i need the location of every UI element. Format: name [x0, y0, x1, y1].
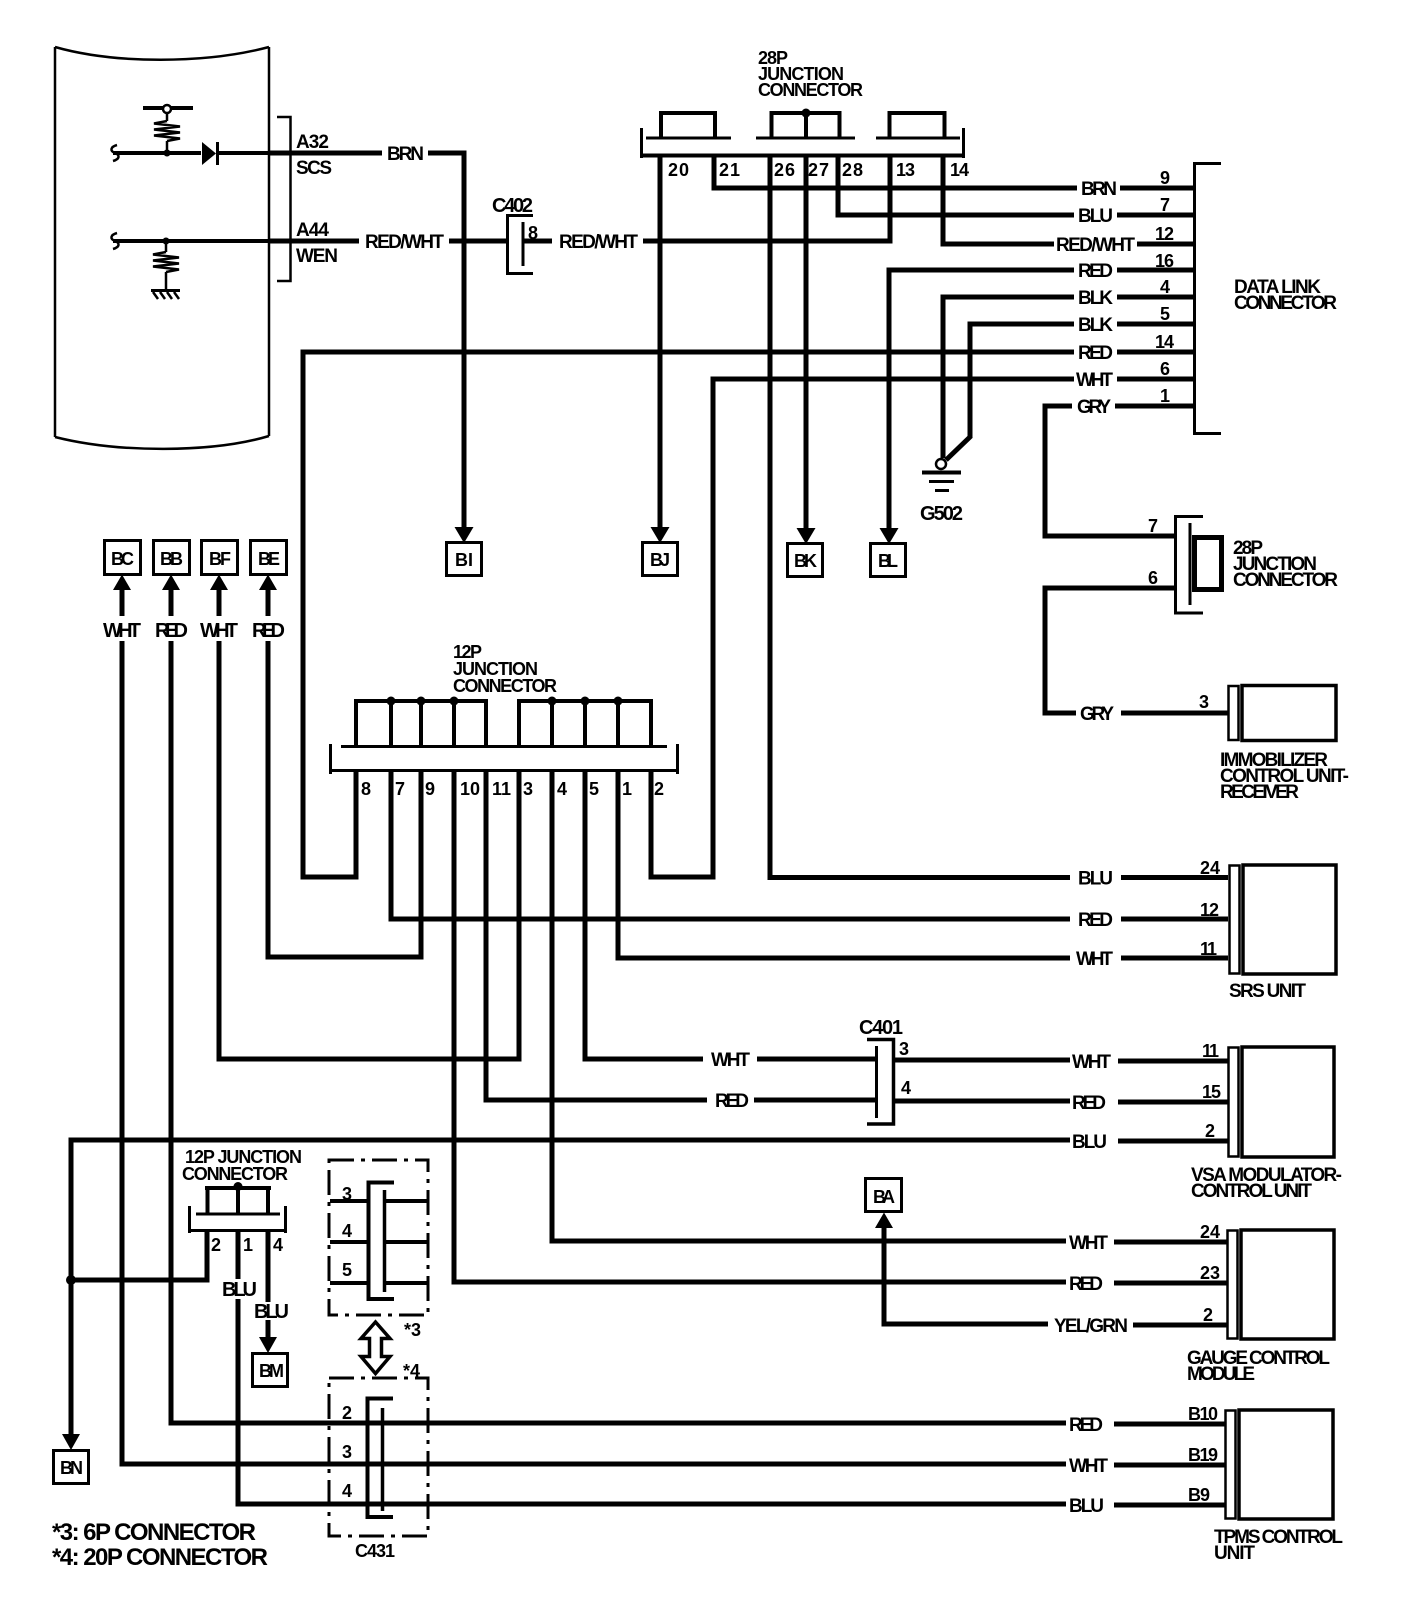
- wire BLU branch to lower 12P pin 2: [71, 1232, 210, 1283]
- 6P connector box *3 (dashed): [329, 1160, 428, 1315]
- svg-text:YEL/GRN: YEL/GRN: [1054, 1316, 1128, 1337]
- wire 12P pin 5 to WHT C401 pin 3: [583, 771, 879, 1062]
- *3 connector symbol: [369, 1183, 395, 1300]
- wire RED/WHT from C402 to 28P pin 13: [524, 157, 890, 244]
- connector box BK with arrow: [788, 528, 823, 577]
- svg-text:BLU: BLU: [1078, 869, 1113, 890]
- svg-text:3: 3: [342, 1184, 352, 1204]
- wire BLU 28P pin26 to SRS24: [768, 875, 1229, 880]
- svg-text:2: 2: [342, 1403, 352, 1423]
- wire BRN from A32 to BI corner: [269, 151, 467, 529]
- wire GRY from DLC pin 1 to 28P right pin 7: [1043, 406, 1195, 539]
- svg-text:13: 13: [896, 160, 915, 180]
- svg-text:BLK: BLK: [1078, 288, 1113, 309]
- 28P junction connector (right) symbol: [1176, 517, 1222, 614]
- svg-text:4: 4: [273, 1235, 283, 1255]
- svg-text:3: 3: [899, 1039, 909, 1059]
- wire BLU from BN node to VSA pin 2: [69, 1140, 1229, 1141]
- connector box BA with up arrow: [866, 1179, 902, 1327]
- 12P lower bump group with dot: [205, 1182, 271, 1214]
- wire 12P pin 7 to RED SRS12: [389, 771, 1229, 922]
- svg-text:2: 2: [1203, 1305, 1213, 1325]
- svg-text:BRN: BRN: [1081, 179, 1117, 200]
- svg-text:BLU: BLU: [1069, 1496, 1104, 1517]
- svg-text:SCS: SCS: [296, 158, 332, 179]
- svg-text:RECEIVER: RECEIVER: [1220, 782, 1299, 803]
- label TPMS CONTROL UNIT: [1214, 1527, 1343, 1564]
- svg-text:CONNECTOR: CONNECTOR: [182, 1164, 288, 1184]
- wire 28P pin 28 to BLU DLC pin 7: [836, 157, 1195, 218]
- svg-text:BI: BI: [455, 550, 473, 570]
- wire GRY from right 28P pin 6 to immobilizer pin 3: [1043, 586, 1229, 716]
- svg-text:7: 7: [1148, 516, 1158, 536]
- label GAUGE CONTROL MODULE: [1187, 1348, 1330, 1385]
- svg-text:16: 16: [1155, 251, 1174, 271]
- connector bracket A32/A44: [277, 117, 291, 281]
- svg-text:23: 23: [1200, 1263, 1220, 1283]
- svg-text:RED: RED: [1069, 1415, 1103, 1436]
- wire 28P pin 21 to BRN DLC pin 9: [712, 157, 1195, 191]
- wire BLU from lower 12P pin 1 to TPMS B9: [236, 1504, 1226, 1505]
- svg-text:20: 20: [668, 160, 689, 180]
- SRS unit box: [1230, 865, 1337, 974]
- svg-text:4: 4: [557, 779, 567, 799]
- wire RED from BB down to TPMS B10 corner: [169, 641, 174, 1426]
- svg-text:1: 1: [243, 1235, 253, 1255]
- 12P junction connector (lower) body bar: [190, 1206, 286, 1233]
- label DATA LINK CONNECTOR: [1234, 277, 1337, 314]
- svg-text:BF: BF: [209, 549, 231, 569]
- connector C402: [508, 216, 534, 274]
- wire BLK from G502 to DLC pin 5: [946, 324, 1194, 460]
- svg-text:5: 5: [342, 1260, 352, 1280]
- connector box BF with up arrow: [202, 541, 238, 617]
- svg-text:B10: B10: [1188, 1404, 1218, 1424]
- svg-text:2: 2: [211, 1235, 221, 1255]
- wire BLU riser to BN with junction dot: [66, 1138, 76, 1437]
- svg-text:MODULE: MODULE: [1187, 1364, 1255, 1385]
- svg-text:4: 4: [1160, 277, 1170, 297]
- svg-text:15: 15: [1202, 1082, 1221, 1102]
- svg-text:*3: *3: [404, 1320, 421, 1340]
- svg-text:C402: C402: [492, 195, 533, 217]
- label 28P JUNCTION CONNECTOR (right): [1233, 538, 1338, 591]
- svg-text:2: 2: [1205, 1121, 1215, 1141]
- svg-text:7: 7: [395, 779, 405, 799]
- svg-text:1: 1: [622, 779, 632, 799]
- wire 12P pin 2 to WHT DLC6 riser: [649, 771, 716, 880]
- 28P connector bump 2 with junction dot: [772, 109, 840, 139]
- wire A32 internal: [111, 145, 269, 161]
- svg-text:CONNECTOR: CONNECTOR: [758, 80, 863, 100]
- svg-text:24: 24: [1200, 858, 1220, 878]
- diode D1: [202, 142, 218, 165]
- svg-text:2: 2: [654, 779, 664, 799]
- svg-text:GRY: GRY: [1077, 397, 1111, 418]
- svg-text:3: 3: [342, 1442, 352, 1462]
- svg-text:RED: RED: [1078, 343, 1113, 364]
- svg-text:CONNECTOR: CONNECTOR: [1233, 570, 1338, 591]
- svg-text:RED: RED: [1078, 261, 1113, 282]
- wire 28P pin 26 down to BLU SRS corner: [768, 157, 773, 880]
- wire 12P pin 1 to WHT SRS11: [616, 771, 1229, 961]
- wire RED from BB to TPMS B10: [169, 1423, 1226, 1424]
- svg-text:3: 3: [1199, 692, 1209, 712]
- *3 pin 5 stubs: [330, 1281, 427, 1285]
- svg-text:A44: A44: [296, 220, 329, 241]
- svg-text:BB: BB: [160, 549, 183, 569]
- svg-text:G502: G502: [920, 503, 963, 525]
- svg-text:C401: C401: [859, 1017, 903, 1039]
- svg-text:8: 8: [361, 779, 371, 799]
- 28P connector bump 1: [661, 113, 715, 138]
- svg-text:RED: RED: [1078, 910, 1113, 931]
- wire WHT from BC down to TPMS B19 corner: [120, 641, 125, 1467]
- svg-text:4: 4: [342, 1221, 352, 1241]
- svg-text:28: 28: [842, 160, 863, 180]
- wire WHT C401 to VSA pin 11: [892, 1060, 1228, 1061]
- svg-text:9: 9: [425, 779, 435, 799]
- wire 28P pin 27 down to BK: [804, 157, 809, 528]
- wire RED long from x303 to DLC pin 14: [301, 352, 1195, 880]
- *3 pin 3 stubs: [330, 1199, 427, 1203]
- svg-text:BLU: BLU: [1072, 1132, 1107, 1153]
- wire lower 12P pin 1 down to BLU TPMS B9: [236, 1231, 241, 1507]
- double arrow between *3 and *4: [361, 1322, 390, 1374]
- svg-text:7: 7: [1160, 195, 1170, 215]
- svg-text:BLU: BLU: [1078, 206, 1113, 227]
- svg-text:6: 6: [1148, 568, 1158, 588]
- svg-text:RED: RED: [1069, 1274, 1103, 1295]
- svg-text:WHT: WHT: [1072, 1052, 1111, 1073]
- svg-text:WHT: WHT: [1076, 949, 1113, 970]
- svg-text:SRS UNIT: SRS UNIT: [1229, 981, 1306, 1002]
- wire 12P pin 10 to RED GAUGE23: [452, 771, 1228, 1285]
- immobilizer control unit-receiver box: [1229, 686, 1337, 741]
- connector C401: [867, 1040, 894, 1125]
- svg-text:RED/WHT: RED/WHT: [1056, 235, 1135, 256]
- svg-text:B9: B9: [1188, 1485, 1210, 1505]
- svg-text:21: 21: [719, 160, 740, 180]
- svg-text:WHT: WHT: [1069, 1233, 1108, 1254]
- wire YEL/GRN to GAUGE pin 2: [882, 1324, 1228, 1325]
- wire RED from BE down to 12P pin 9 wire: [266, 641, 271, 960]
- *3 pin 4 stubs: [330, 1240, 427, 1244]
- svg-text:*4: 20P CONNECTOR: *4: 20P CONNECTOR: [52, 1544, 268, 1571]
- wire 12P pin 11 to RED C401 pin 4: [484, 771, 879, 1103]
- control module box (torn edges): [55, 47, 269, 449]
- 20P connector box *4 / C431 (dashed): [329, 1378, 428, 1536]
- svg-text:BE: BE: [258, 549, 280, 569]
- svg-text:CONNECTOR: CONNECTOR: [1234, 293, 1337, 314]
- svg-text:RED: RED: [252, 620, 285, 642]
- wire WHT from BF down to C401/12P pin 3: [217, 641, 222, 1062]
- wire 12P pin 9 to BE (WHT): [266, 771, 424, 960]
- svg-text:RED/WHT: RED/WHT: [365, 232, 444, 253]
- svg-text:11: 11: [1202, 1041, 1219, 1061]
- connector box BN with arrow: [54, 1434, 89, 1484]
- connector box BM with arrow: [253, 1320, 288, 1387]
- svg-text:BN: BN: [60, 1458, 83, 1478]
- svg-text:BC: BC: [111, 549, 134, 569]
- wire 28P pin 20 down to BJ: [658, 157, 663, 528]
- wire lower 12P pin 4 to BM: [266, 1231, 271, 1302]
- wire WHT from x713 to DLC pin 6: [711, 379, 1195, 880]
- svg-text:RED: RED: [155, 620, 188, 642]
- resistor R-bottom: [153, 241, 179, 289]
- svg-text:BLK: BLK: [1078, 315, 1113, 336]
- wire RED from BL corner to DLC pin 16: [887, 270, 1195, 528]
- svg-text:4: 4: [342, 1481, 352, 1501]
- 28P junction connector (top) body bar: [640, 128, 965, 158]
- svg-text:14: 14: [1155, 332, 1174, 352]
- wire A44 internal: [111, 233, 269, 249]
- svg-text:*3: 6P CONNECTOR: *3: 6P CONNECTOR: [52, 1519, 256, 1546]
- gauge control module box: [1228, 1230, 1335, 1339]
- pull-up supply bar with circle: [143, 105, 193, 113]
- wire RED C401 to VSA pin 15: [892, 1101, 1228, 1102]
- TPMS control unit box: [1226, 1410, 1334, 1519]
- svg-text:BLU: BLU: [254, 1301, 289, 1323]
- wire RED/WHT from A44 to C402: [269, 239, 506, 244]
- ground G502: [922, 459, 961, 491]
- connector box BE with up arrow: [251, 541, 287, 617]
- connector box BJ with arrow: [643, 527, 678, 576]
- svg-text:11: 11: [492, 779, 511, 799]
- C431 connector symbol: [368, 1399, 394, 1518]
- svg-text:WHT: WHT: [1076, 370, 1113, 391]
- VSA modulator-control unit box: [1229, 1047, 1335, 1157]
- svg-text:WHT: WHT: [103, 620, 141, 642]
- svg-text:WHT: WHT: [200, 620, 238, 642]
- svg-text:BK: BK: [794, 551, 817, 571]
- svg-text:4: 4: [901, 1078, 911, 1098]
- connector box BL with arrow: [871, 528, 906, 577]
- svg-text:RED/WHT: RED/WHT: [559, 232, 638, 253]
- svg-text:BLU: BLU: [222, 1279, 257, 1301]
- wire 12P pin 3 to BF (WHT): [217, 771, 522, 1062]
- wire 28P pin 14 to RED/WHT DLC pin 12: [941, 157, 1195, 247]
- wire WHT from BC to TPMS B19: [120, 1464, 1226, 1465]
- svg-text:UNIT: UNIT: [1214, 1543, 1255, 1564]
- svg-text:WHT: WHT: [1069, 1456, 1108, 1477]
- connector box BI with arrow: [447, 527, 482, 576]
- wire 12P pin 4 to WHT GAUGE24: [550, 771, 1228, 1244]
- resistor R-top: [154, 113, 180, 153]
- 12P junction connector (center) title: [453, 642, 557, 696]
- 12P center bump group 2 with dots: [517, 697, 653, 747]
- 28P connector bump 3: [890, 113, 945, 138]
- svg-text:9: 9: [1160, 168, 1170, 188]
- svg-text:GRY: GRY: [1080, 704, 1114, 725]
- svg-text:RED: RED: [1072, 1093, 1106, 1114]
- svg-text:12: 12: [1200, 900, 1219, 920]
- svg-text:27: 27: [808, 160, 829, 180]
- wire 12P pin 8 to RED DLC14 riser: [301, 771, 359, 880]
- 28P junction connector (top) title: [758, 48, 863, 100]
- svg-text:1: 1: [1160, 386, 1170, 406]
- label VSA MODULATOR-CONTROL UNIT: [1191, 1165, 1342, 1202]
- 12P center bump group 1 with dots: [354, 697, 488, 747]
- svg-text:WHT: WHT: [711, 1050, 750, 1071]
- svg-text:3: 3: [523, 779, 533, 799]
- svg-text:24: 24: [1200, 1222, 1220, 1242]
- svg-text:BJ: BJ: [650, 550, 670, 570]
- 12P junction connector (lower) title: [182, 1147, 302, 1184]
- svg-text:B19: B19: [1188, 1445, 1218, 1465]
- connector box BB with up arrow: [154, 541, 190, 617]
- svg-text:BRN: BRN: [387, 144, 424, 165]
- ground (chassis) inside box: [151, 291, 180, 300]
- svg-text:CONTROL UNIT: CONTROL UNIT: [1191, 1181, 1312, 1202]
- connector box BC with up arrow: [105, 541, 141, 617]
- svg-text:C431: C431: [355, 1541, 395, 1561]
- svg-text:A32: A32: [296, 132, 329, 153]
- svg-text:5: 5: [589, 779, 599, 799]
- svg-text:CONNECTOR: CONNECTOR: [453, 676, 557, 696]
- svg-text:BA: BA: [873, 1187, 895, 1207]
- svg-text:5: 5: [1160, 304, 1170, 324]
- svg-text:BM: BM: [259, 1361, 284, 1381]
- svg-text:10: 10: [460, 779, 480, 799]
- svg-text:26: 26: [774, 160, 795, 180]
- svg-text:14: 14: [950, 160, 969, 180]
- 12P junction connector (center) body bar: [330, 744, 678, 774]
- wire BLK from G502 to DLC pin 4: [941, 297, 1195, 458]
- data link connector bracket: [1193, 162, 1221, 435]
- svg-text:BL: BL: [878, 551, 898, 571]
- svg-text:11: 11: [1200, 939, 1217, 959]
- svg-text:WEN: WEN: [296, 246, 338, 267]
- label IMMOBILIZER CONTROL UNIT-RECEIVER: [1220, 750, 1349, 803]
- svg-text:12: 12: [1155, 224, 1174, 244]
- svg-text:6: 6: [1160, 359, 1170, 379]
- svg-text:RED: RED: [715, 1091, 749, 1112]
